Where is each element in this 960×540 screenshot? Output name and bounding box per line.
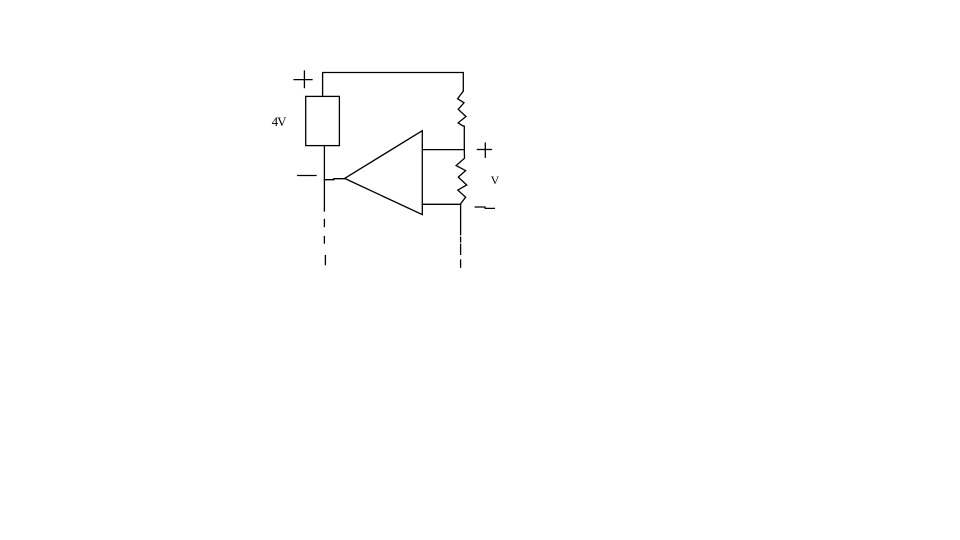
wire: left rail dashed segment 3 bbox=[324, 256, 326, 265]
svg-text:V: V bbox=[491, 173, 500, 187]
resistor R2 (lower right zigzag) bbox=[456, 150, 467, 204]
wire top: from source top up and across to right rail bbox=[323, 73, 464, 97]
wire: node to op-amp apex bbox=[324, 179, 344, 180]
op-amp U1 (triangle pointing left) bbox=[345, 131, 423, 215]
wire: op-amp top terminal to right rail bbox=[422, 149, 463, 151]
wire: right rail solid below node bbox=[460, 204, 462, 234]
plus sign (V positive) bbox=[477, 143, 491, 157]
wire: right rail dashed segment 1 bbox=[460, 237, 462, 242]
minus sign (V negative) bbox=[475, 207, 494, 208]
voltage source box (4V) bbox=[306, 96, 340, 145]
wire: below source box down to inverting-input node bbox=[323, 146, 325, 211]
resistor R1 (top right zigzag) bbox=[458, 91, 466, 150]
plus sign (left source positive terminal) bbox=[294, 71, 312, 88]
wire: right rail dashed segment 3 bbox=[460, 260, 462, 267]
svg-text:4V: 4V bbox=[272, 114, 288, 129]
wire: op-amp bottom terminal to right rail bbox=[422, 203, 460, 205]
wire: left rail dashed segment 1 bbox=[323, 220, 325, 227]
wire: right rail dashed segment 2 bbox=[460, 244, 462, 254]
wire: left rail dashed segment 2 bbox=[323, 237, 325, 244]
minus sign (left, inverting input) bbox=[298, 175, 316, 177]
